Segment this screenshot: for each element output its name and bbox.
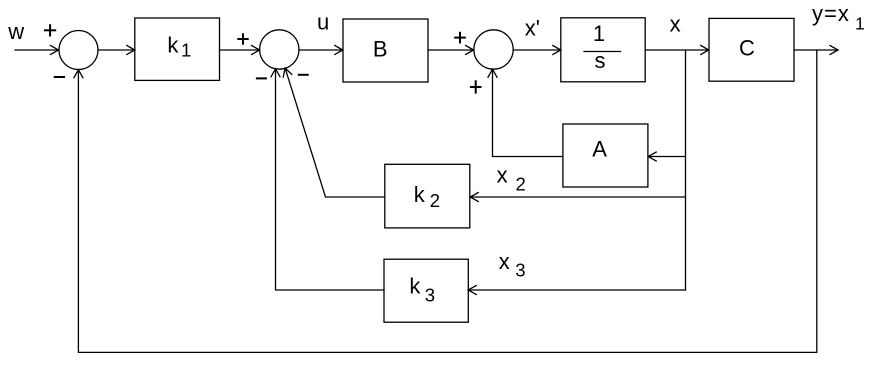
- svg-text:u: u: [317, 10, 329, 35]
- svg-text:s: s: [595, 48, 606, 73]
- svg-text:x: x: [497, 163, 508, 188]
- block K3: [384, 259, 468, 322]
- wire bus to K2: [470, 196, 685, 198]
- svg-text:B: B: [373, 36, 388, 61]
- block integrator 1/s: [561, 18, 645, 82]
- svg-text:1: 1: [593, 21, 605, 46]
- label minus sign right at S2: [298, 74, 309, 76]
- label minus sign at S1: [54, 76, 65, 78]
- label plus sign below S3: [470, 80, 482, 93]
- block C: [709, 18, 794, 81]
- wire outer feedback y to S1: [78, 50, 816, 352]
- svg-text:w: w: [7, 19, 24, 44]
- wire C to output y: [794, 49, 838, 51]
- wire node x vertical feedback bus: [685, 50, 687, 290]
- summing junction S1: [59, 31, 98, 70]
- summing junction S2: [260, 30, 299, 69]
- wire A to summer S3: [493, 69, 563, 156]
- svg-text:1: 1: [181, 39, 191, 60]
- svg-text:2: 2: [516, 173, 526, 194]
- wire B to summer S3: [428, 49, 474, 51]
- svg-text:1: 1: [855, 14, 865, 34]
- svg-text:2: 2: [430, 190, 440, 211]
- wire K1 to summer S2: [220, 49, 260, 51]
- svg-text:x: x: [670, 12, 681, 37]
- wire S2 to B: [299, 49, 343, 51]
- label plus sign at S2: [237, 33, 248, 44]
- label plus sign at S1: [44, 24, 56, 36]
- block A: [563, 124, 648, 187]
- svg-text:x: x: [499, 249, 510, 274]
- svg-text:3: 3: [515, 260, 525, 281]
- wire bus to K3: [468, 289, 685, 291]
- svg-text:y=x: y=x: [812, 1, 850, 26]
- summing junction S3: [474, 30, 513, 69]
- svg-text:k: k: [167, 32, 179, 57]
- svg-text:3: 3: [425, 285, 435, 306]
- label plus sign at S3: [454, 32, 466, 44]
- block B: [343, 19, 428, 82]
- wire K2 to summer S2 diagonal: [285, 68, 385, 197]
- wire S1 to K1: [98, 49, 135, 51]
- block K2: [385, 164, 470, 228]
- block K1: [135, 18, 220, 80]
- label minus sign left at S2: [256, 77, 267, 79]
- svg-text:x': x': [525, 15, 540, 40]
- wire integrator to C with node x takeoff: [645, 49, 709, 51]
- wire K3 to summer S2: [276, 69, 385, 290]
- wire S3 to integrator: [513, 49, 561, 51]
- svg-text:k: k: [409, 274, 421, 299]
- svg-text:C: C: [739, 35, 755, 60]
- wire bus to A: [648, 156, 685, 158]
- svg-text:A: A: [592, 137, 607, 162]
- svg-text:k: k: [414, 182, 426, 207]
- wire input w to summer S1: [15, 49, 59, 51]
